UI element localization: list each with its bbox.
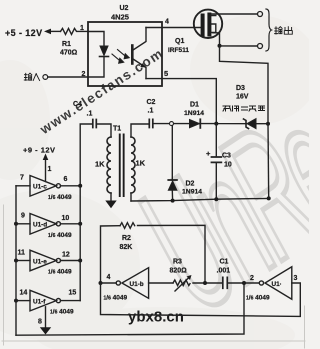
label 1/6 4049 e (48, 269, 72, 276)
LED cathode wire (88, 57, 104, 77)
wire in9 (16, 223, 30, 225)
input terminal (43, 75, 48, 80)
label U1-a (272, 281, 282, 288)
svg-text:3: 3 (294, 275, 298, 282)
junction out6 (78, 184, 82, 188)
svg-text:.1: .1 (87, 111, 93, 118)
svg-text:1N914: 1N914 (182, 189, 202, 196)
wire out10 (61, 223, 81, 225)
oscillator top feedback wire (101, 225, 206, 283)
label pin15 (69, 290, 77, 297)
svg-text:5: 5 (164, 69, 168, 78)
label pin4 (165, 19, 169, 26)
svg-text:1/6 4049: 1/6 4049 (48, 232, 72, 239)
wire out6 (61, 185, 81, 187)
wire in14 (16, 300, 30, 302)
svg-text:4: 4 (165, 19, 169, 26)
svg-text:+5 - 12V: +5 - 12V (5, 28, 42, 38)
wire source rail right (220, 46, 269, 124)
transistor Q1 MOSFET (194, 10, 222, 38)
svg-text:C2: C2 (147, 99, 156, 106)
wire drain to output (212, 13, 258, 15)
supply +5-12V label (5, 28, 42, 38)
label U1-b (130, 281, 144, 288)
wire out15 (61, 300, 81, 302)
svg-text:1K: 1K (136, 159, 146, 168)
wire C4 right to primary (96, 124, 111, 137)
label U1-f (33, 299, 46, 306)
scan edge artifacts (2, 205, 305, 348)
label pin10 (62, 215, 70, 222)
label Q1 (175, 38, 184, 45)
svg-text:.001: .001 (217, 268, 231, 275)
transformer T1 core (119, 134, 125, 198)
svg-text:U2: U2 (120, 5, 129, 12)
resistor R2 (120, 223, 135, 229)
svg-text:1/6 4049: 1/6 4049 (104, 295, 128, 302)
label pin2 (82, 71, 86, 78)
label 1K primary (95, 160, 105, 169)
capacitor C2 (149, 119, 153, 127)
svg-text:470Ω: 470Ω (60, 50, 78, 57)
svg-text:1/6 4049: 1/6 4049 (48, 194, 72, 201)
svg-text:82K: 82K (120, 244, 133, 251)
svg-text:R3: R3 (173, 259, 182, 266)
supply arrow (44, 29, 61, 35)
svg-text:R2: R2 (122, 235, 131, 242)
svg-text:1N914: 1N914 (184, 110, 204, 117)
svg-text:1: 1 (48, 166, 52, 173)
label 1/6 4049 c (48, 194, 72, 201)
output bus (79, 186, 81, 301)
label D1 1N914 (184, 110, 204, 117)
svg-text:8: 8 (38, 319, 42, 326)
light arrows (112, 50, 130, 64)
floating bottom rail (131, 198, 269, 201)
junction D2 bottom (171, 199, 175, 203)
label 4N25 (111, 13, 129, 22)
label pin8 (38, 319, 42, 326)
label pin5 (164, 69, 168, 78)
LED anode wire (88, 32, 104, 47)
svg-text:ybx8.cn: ybx8.cn (128, 309, 184, 326)
wire pin3 loop (101, 283, 301, 316)
U1 ground pin8 (40, 307, 51, 335)
label C4 (73, 101, 92, 118)
label pin11 (18, 250, 26, 257)
junction pin4 node (99, 281, 103, 285)
wire source down (213, 33, 220, 46)
svg-text:10: 10 (62, 215, 70, 222)
label 1/6 4049 d (48, 232, 72, 239)
svg-text:14: 14 (20, 290, 28, 297)
junction D3 right (266, 122, 270, 126)
wire secondary bottom to rail (130, 193, 132, 201)
junction in11 (14, 259, 18, 263)
label U1-c (33, 184, 47, 191)
label U1-e (33, 258, 47, 265)
svg-text:9: 9 (21, 213, 25, 220)
svg-text:U1-c: U1-c (33, 184, 47, 191)
svg-text:+9 - 12V: +9 - 12V (23, 146, 56, 155)
svg-text:D1: D1 (190, 102, 199, 109)
resistor R1 (61, 28, 89, 34)
phototransistor base bar (131, 46, 134, 64)
bottom rail to node2 (16, 283, 244, 335)
label 820ohm (170, 268, 188, 275)
optocoupler U2 box (88, 22, 162, 86)
label C1 (220, 259, 229, 266)
svg-text:U1·: U1· (272, 281, 282, 288)
label C3 plus (206, 149, 211, 158)
label U2 (120, 5, 129, 12)
junction source (218, 44, 222, 48)
svg-text:15: 15 (69, 290, 77, 297)
label 1K secondary (136, 159, 146, 168)
svg-text:U1-e: U1-e (33, 258, 47, 265)
label 1/6 4049 b (104, 295, 128, 302)
label D2 (186, 181, 195, 188)
junction rail right corner (267, 124, 271, 201)
label +9-12V (23, 146, 56, 155)
watermark gray letters UnRe (106, 68, 320, 349)
label R3 (173, 259, 182, 266)
svg-text:1/6 4049: 1/6 4049 (48, 269, 72, 276)
wire source to output (220, 45, 258, 47)
label 1/6 4049 f (50, 309, 74, 316)
label pin12 (62, 252, 70, 259)
label D2 1N914 (182, 189, 202, 196)
svg-text:C1: C1 (220, 259, 229, 266)
inverter U1-d (30, 214, 61, 235)
label pin7 (20, 175, 24, 182)
junction out12 (78, 259, 82, 263)
diode D1 (190, 119, 201, 128)
junction D1-D3 node (214, 122, 218, 126)
label zener chinese (223, 106, 265, 111)
label 16V (236, 94, 249, 101)
label D1 (190, 102, 199, 109)
label IRF511 (168, 47, 189, 54)
label node2 (250, 275, 254, 282)
label 82K (120, 244, 133, 251)
capacitor C1 (223, 277, 228, 288)
svg-text:T1: T1 (113, 126, 121, 133)
svg-text:2: 2 (250, 275, 254, 282)
svg-text:1/6 4049: 1/6 4049 (50, 309, 74, 316)
transformer T1 secondary coil (131, 137, 135, 193)
capacitor C3 (212, 124, 222, 200)
label pin1 (80, 25, 84, 32)
label U1-d (33, 222, 47, 229)
inverter U1-f (30, 290, 61, 311)
output terminal bottom (258, 44, 263, 49)
wire input to U2 pin2 (48, 76, 88, 78)
rectifier rail (153, 123, 268, 125)
primary ground (105, 193, 116, 208)
junction node2 (242, 281, 246, 285)
svg-text:C3: C3 (222, 153, 231, 160)
svg-text:D3: D3 (236, 85, 245, 92)
svg-text:C4: C4 (73, 101, 82, 108)
label R1 470ohm (60, 41, 78, 57)
svg-text:16V: 16V (236, 94, 249, 101)
wire U2 pin4 to Q1 gate (146, 27, 201, 29)
resistor R3 variable (173, 275, 192, 291)
svg-text:IRF511: IRF511 (168, 47, 189, 54)
svg-text:D2: D2 (186, 181, 195, 188)
label C3 (222, 153, 232, 169)
node open circle (170, 122, 174, 126)
svg-text:U1-f: U1-f (33, 299, 46, 306)
svg-text:820Ω: 820Ω (170, 268, 188, 275)
inverter U1-b (116, 268, 148, 299)
pin1 power arrow (43, 154, 49, 182)
wire C4 left to bus (80, 124, 93, 186)
svg-text:1/6 4049: 1/6 4049 (246, 295, 270, 302)
junction in9 (14, 222, 18, 226)
LED D inside U2 (100, 46, 109, 57)
wire in7 (16, 185, 30, 187)
svg-text:4: 4 (107, 274, 111, 281)
inverter U1-a (259, 267, 292, 299)
label shuchu (output) (275, 27, 293, 35)
label R2 (122, 235, 131, 242)
svg-text:4N25: 4N25 (111, 13, 129, 22)
svg-text:U1-d: U1-d (33, 222, 47, 229)
wire secondary top to C2 (131, 124, 149, 137)
watermark red www.elecfans.com (37, 45, 167, 137)
inverter U1-c (30, 176, 61, 197)
junction in14 (14, 299, 18, 303)
svg-text:R1: R1 (62, 41, 71, 48)
junction C3 bottom (214, 197, 218, 201)
svg-text:2: 2 (82, 71, 86, 78)
label D3 (236, 85, 245, 92)
wire in11 (16, 260, 30, 262)
label C2 (147, 99, 156, 115)
label 1/6 4049 a (246, 295, 270, 302)
label pin6 (64, 176, 68, 183)
wire out12 (61, 260, 81, 262)
osc main wire (101, 282, 260, 284)
output terminal top (258, 12, 263, 17)
label pin14 (20, 290, 28, 297)
phototransistor emitter (132, 59, 146, 79)
label .001 (217, 268, 231, 275)
svg-text:10: 10 (224, 162, 232, 169)
label pin4 U1b (107, 274, 111, 281)
svg-text:U1-b: U1-b (130, 281, 144, 288)
svg-text:1K: 1K (95, 160, 105, 169)
label shuru (input) (24, 73, 39, 80)
input bus (15, 186, 17, 335)
zener D3 (244, 119, 257, 129)
svg-text:+: + (206, 149, 211, 158)
inverter U1-e (30, 250, 61, 271)
label pin9 (21, 213, 25, 220)
label pin1 U1c (48, 166, 52, 173)
junction R2R3C1 (203, 281, 207, 285)
junction out10 (78, 222, 82, 226)
wire U2 pin5 (146, 79, 216, 124)
label pin3 (294, 275, 298, 282)
svg-text:11: 11 (18, 250, 26, 257)
svg-text:.1: .1 (148, 108, 154, 115)
diode D2 (168, 126, 177, 201)
svg-text:1: 1 (80, 25, 84, 32)
phototransistor collector (132, 28, 146, 51)
svg-text:Q1: Q1 (175, 38, 184, 45)
svg-text:12: 12 (62, 252, 70, 259)
svg-text:7: 7 (20, 175, 24, 182)
output brace (266, 9, 272, 51)
capacitor C4 (93, 120, 97, 128)
label T1 (113, 126, 121, 133)
transformer T1 primary coil (107, 137, 111, 193)
svg-text:6: 6 (64, 176, 68, 183)
